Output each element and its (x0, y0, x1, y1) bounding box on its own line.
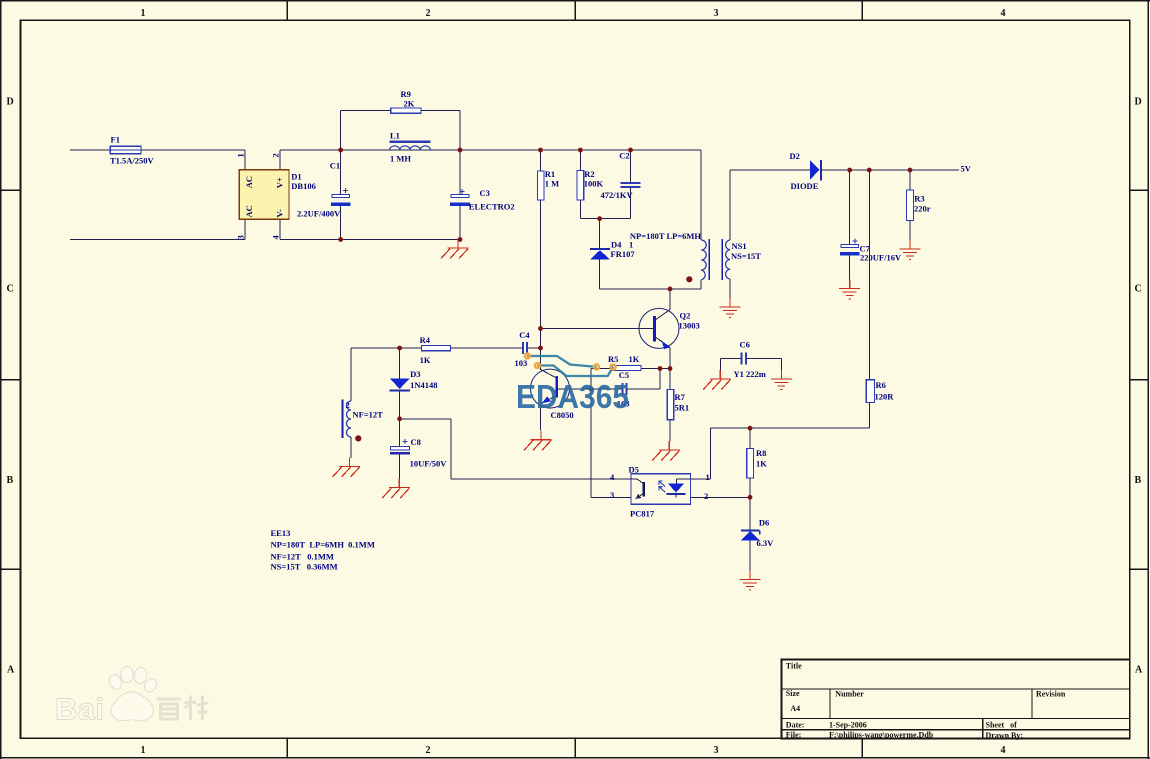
svg-text:1N4148: 1N4148 (410, 380, 437, 390)
svg-text:1 MH: 1 MH (390, 154, 411, 164)
svg-text:472/1KV: 472/1KV (601, 190, 634, 200)
svg-text:1K: 1K (756, 459, 767, 469)
svg-text:AC: AC (244, 176, 254, 188)
svg-text:2K: 2K (404, 99, 415, 109)
svg-text:R4: R4 (420, 335, 431, 345)
svg-text:220UF/16V: 220UF/16V (860, 253, 902, 263)
svg-text:C: C (1135, 284, 1142, 295)
svg-text:D: D (1135, 97, 1142, 108)
svg-text:1 M: 1 M (545, 179, 559, 189)
svg-text:du: du (119, 697, 141, 717)
svg-text:Drawn By:: Drawn By: (986, 731, 1024, 740)
svg-text:120R: 120R (875, 392, 895, 402)
svg-text:Bai: Bai (55, 692, 104, 727)
svg-text:NF=12T 0.1MM: NF=12T 0.1MM (271, 552, 334, 562)
svg-text:A4: A4 (790, 704, 800, 713)
svg-text:3: 3 (714, 8, 719, 19)
svg-text:B: B (7, 475, 14, 486)
svg-text:R8: R8 (756, 448, 766, 458)
svg-text:C4: C4 (519, 330, 530, 340)
svg-text:DB106: DB106 (291, 181, 316, 191)
svg-text:Sheet of: Sheet of (986, 721, 1018, 730)
svg-text:10UF/50V: 10UF/50V (410, 458, 448, 468)
svg-text:NF=12T: NF=12T (353, 410, 384, 420)
svg-text:FR107: FR107 (611, 249, 636, 259)
svg-text:PC817: PC817 (630, 509, 655, 519)
svg-text:File:: File: (786, 730, 802, 739)
svg-text:R2: R2 (584, 169, 594, 179)
svg-text:1: 1 (141, 745, 146, 756)
svg-text:NP=180T LP=6MH 0.1MM: NP=180T LP=6MH 0.1MM (271, 540, 375, 550)
svg-text:D1: D1 (291, 172, 301, 182)
svg-text:R5: R5 (608, 354, 618, 364)
svg-text:C8: C8 (411, 437, 421, 447)
svg-text:A: A (7, 665, 15, 676)
svg-text:R7: R7 (675, 392, 686, 402)
svg-text:F:\philips-wang\powerme.Ddb: F:\philips-wang\powerme.Ddb (829, 730, 934, 739)
svg-text:F1: F1 (111, 134, 120, 144)
svg-text:2: 2 (271, 153, 281, 157)
svg-text:1: 1 (629, 240, 633, 250)
svg-text:R9: R9 (401, 89, 411, 99)
svg-text:103: 103 (515, 358, 528, 368)
svg-text:A: A (1135, 665, 1143, 676)
svg-text:EDA365: EDA365 (516, 378, 629, 415)
svg-text:3: 3 (610, 490, 614, 500)
svg-text:220r: 220r (914, 204, 931, 214)
svg-text:5V: 5V (961, 164, 972, 174)
svg-text:C2: C2 (619, 151, 629, 161)
svg-text:R6: R6 (876, 380, 886, 390)
svg-text:D: D (7, 97, 14, 108)
svg-text:100K: 100K (584, 179, 604, 189)
svg-text:B: B (1135, 475, 1142, 486)
svg-text:D3: D3 (410, 369, 420, 379)
svg-text:6.3V: 6.3V (757, 538, 775, 548)
svg-text:2: 2 (426, 745, 431, 756)
svg-text:1: 1 (236, 153, 246, 157)
svg-text:L1: L1 (390, 131, 400, 141)
svg-text:D2: D2 (790, 151, 800, 161)
svg-text:1-Sep-2006: 1-Sep-2006 (829, 720, 867, 729)
svg-text:3: 3 (236, 235, 246, 239)
svg-text:C3: C3 (480, 188, 490, 198)
svg-text:D5: D5 (629, 465, 639, 475)
svg-text:5R1: 5R1 (675, 403, 690, 413)
svg-text:1: 1 (141, 8, 146, 19)
svg-text:D6: D6 (759, 518, 769, 528)
svg-text:Size: Size (786, 689, 800, 698)
svg-text:Number: Number (835, 690, 864, 699)
svg-text:NS=15T 0.36MM: NS=15T 0.36MM (271, 562, 338, 572)
svg-text:Y1 222m: Y1 222m (734, 369, 766, 379)
svg-text:DIODE: DIODE (791, 181, 819, 191)
svg-text:AC: AC (244, 205, 254, 217)
svg-text:Q2: Q2 (680, 311, 691, 321)
svg-text:T1.5A/250V: T1.5A/250V (110, 156, 155, 166)
svg-text:2: 2 (704, 491, 708, 501)
svg-text:ELECTRO2: ELECTRO2 (469, 202, 515, 212)
svg-text:1K: 1K (629, 354, 640, 364)
svg-text:4: 4 (1001, 8, 1006, 19)
svg-text:Revision: Revision (1036, 690, 1066, 699)
svg-text:V+: V+ (274, 177, 284, 188)
svg-text:EE13: EE13 (271, 528, 291, 538)
svg-text:C: C (7, 284, 14, 295)
svg-text:3: 3 (714, 745, 719, 756)
svg-text:4: 4 (1001, 745, 1006, 756)
svg-text:C1: C1 (330, 161, 340, 171)
svg-text:R1: R1 (545, 169, 555, 179)
svg-text:2: 2 (426, 8, 431, 19)
svg-text:V-: V- (274, 209, 284, 218)
svg-text:NS1: NS1 (732, 241, 747, 251)
svg-text:2: 2 (346, 400, 350, 410)
svg-text:Title: Title (786, 662, 802, 671)
svg-text:NS=15T: NS=15T (731, 251, 761, 261)
svg-text:2.2UF/400V: 2.2UF/400V (297, 209, 341, 219)
svg-text:1K: 1K (420, 355, 431, 365)
svg-text:1: 1 (706, 472, 710, 482)
svg-text:C6: C6 (740, 340, 750, 350)
svg-text:Date:: Date: (786, 720, 805, 729)
svg-text:13003: 13003 (679, 321, 700, 331)
svg-text:NP=180T LP=6MH: NP=180T LP=6MH (630, 231, 702, 241)
svg-text:R3: R3 (914, 194, 924, 204)
svg-text:D4: D4 (611, 240, 622, 250)
